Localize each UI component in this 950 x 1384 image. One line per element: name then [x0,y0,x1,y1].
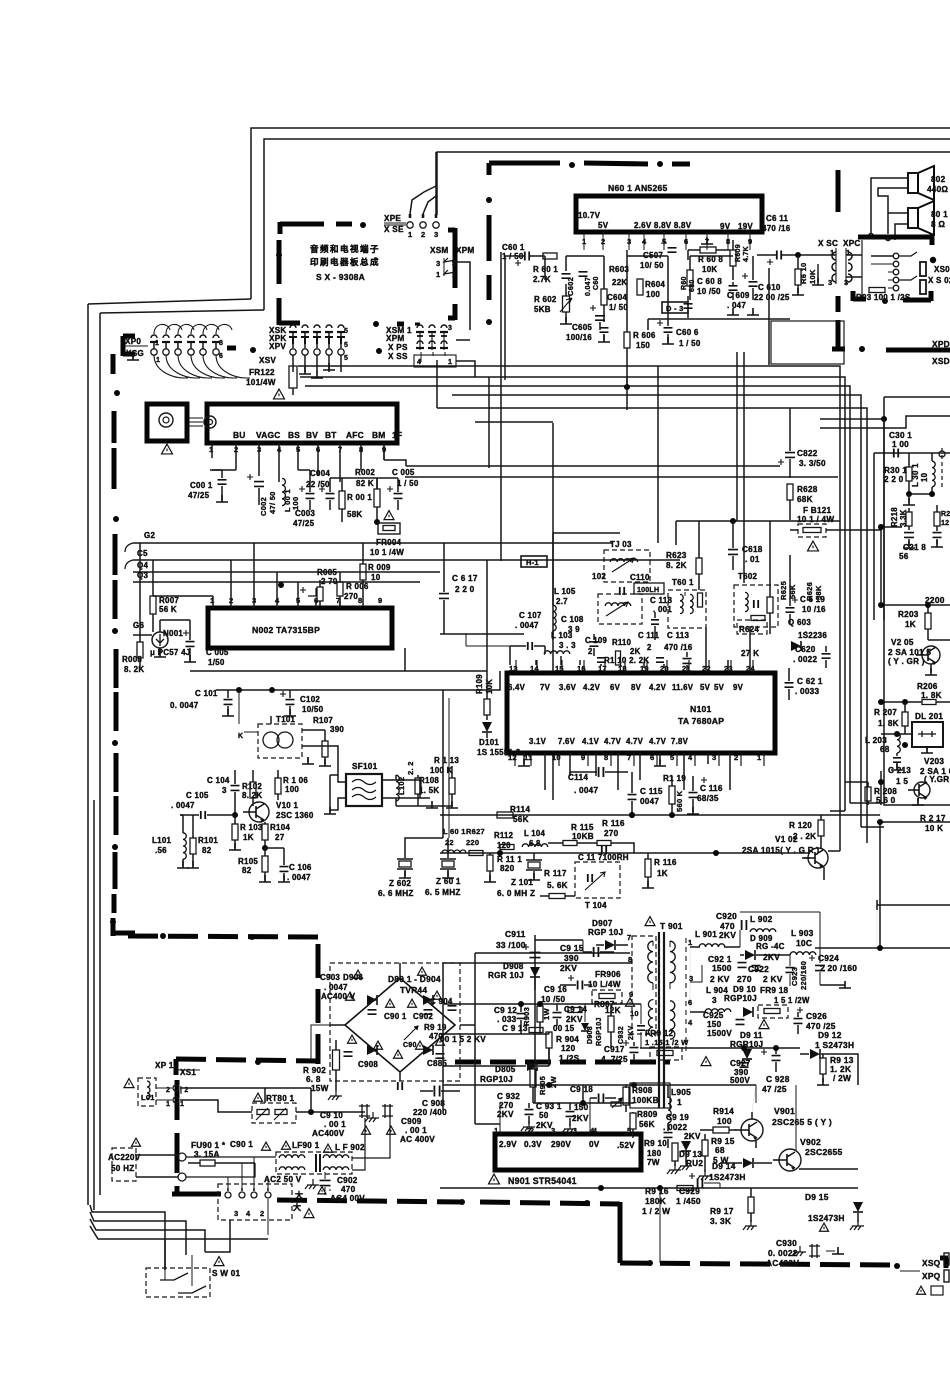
svg-text:14: 14 [530,664,539,673]
svg-text:2K: 2K [630,647,641,656]
svg-text:50: 50 [539,1111,549,1120]
capacitor C913 [502,1024,543,1033]
wire mid rail 815 [440,812,880,818]
svg-text:10/50: 10/50 [302,705,324,714]
svg-text:R109: R109 [475,674,484,694]
resistor FR918 [758,986,810,1018]
svg-text:H-1: H-1 [526,558,539,567]
svg-text:T602: T602 [738,572,758,581]
svg-text:10 /16: 10 /16 [802,605,826,614]
op-amp N101 TA7680AP box [507,673,775,753]
bus G2 line [125,531,612,552]
resistor R916 [642,1186,693,1217]
capacitor C607 [640,240,677,270]
wire sec rail2 [640,965,800,1051]
svg-text:4.1V: 4.1V [582,737,600,746]
capacitor C105 [171,791,235,819]
svg-text:Q 603: Q 603 [788,618,811,627]
svg-text:XP0: XP0 [125,337,141,346]
resistor R915 [702,1134,735,1165]
svg-text:C 93 1: C 93 1 [536,1102,562,1111]
svg-text:C60 6: C60 6 [676,328,699,337]
resistor R625 [767,521,795,634]
svg-text:8 Ω: 8 Ω [931,220,945,229]
capacitor C104 [207,770,240,818]
svg-text:C 609: C 609 [727,291,750,300]
resistor R03 [856,288,911,303]
wire tuner pin stubs [212,443,384,482]
wire v901 links [697,1085,858,1180]
svg-text:C90: C90 [403,1042,417,1049]
svg-text:68: 68 [880,745,890,754]
transistor V203 [908,757,950,805]
svg-text:2.9V: 2.9V [499,1140,517,1149]
svg-text:C925: C925 [703,1011,724,1020]
svg-text:10C: 10C [796,938,812,948]
svg-text:SF101: SF101 [352,762,378,771]
transistor V902 [773,1137,843,1171]
svg-text:C 104: C 104 [207,776,230,785]
svg-text:56K: 56K [639,1120,655,1129]
svg-text:C90 1: C90 1 [384,1012,407,1021]
ground XSK pins [299,363,335,378]
inductor L105 [553,533,576,640]
svg-text:22 00 /25: 22 00 /25 [754,293,790,302]
board audio dashed border top [489,161,690,175]
svg-text:10KB: 10KB [572,832,594,841]
svg-text:TJ 03: TJ 03 [610,540,632,549]
svg-text:C 109: C 109 [585,636,607,645]
svg-text:1: 1 [408,230,412,239]
svg-text:N001: N001 [163,629,183,638]
ground T101 [302,757,314,764]
diode D908 [488,962,540,990]
capacitor C002 [247,474,277,516]
svg-text:C9 15: C9 15 [560,943,584,953]
svg-text:10: 10 [630,1009,639,1018]
capacitor C605 [566,323,610,342]
label 大 marks [293,1190,303,1212]
svg-text:6. 8: 6. 8 [306,1075,321,1084]
svg-text:1: 1 [210,596,214,605]
resistor R005 [300,568,338,606]
svg-text:6.4V: 6.4V [508,683,526,692]
svg-text:R 00 1: R 00 1 [347,493,372,502]
svg-text:C90 1: C90 1 [230,1140,253,1149]
capacitor C115 [628,772,663,818]
wire outer board outline top [251,128,950,310]
capacitor C003 [293,470,315,528]
capacitor C611 [757,214,830,265]
svg-text:R30 1: R30 1 [884,466,907,475]
svg-text:XSM: XSM [430,246,449,255]
resistor R603 [601,256,629,322]
svg-text:4.7V: 4.7V [604,737,622,746]
svg-text:5: 5 [344,328,348,335]
svg-text:N901 STR54041: N901 STR54041 [508,1176,577,1186]
capacitor C915 [560,940,614,973]
svg-text:102: 102 [592,572,606,581]
svg-text:L101: L101 [152,836,172,845]
svg-text:AC2 50 V: AC2 50 V [264,1175,302,1184]
svg-text:XPM: XPM [386,334,405,343]
svg-text:R6 10: R6 10 [799,262,808,284]
svg-text:4.2V: 4.2V [649,683,667,692]
svg-text:C9 10: C9 10 [320,1111,343,1120]
resistor FB121 [790,506,881,537]
svg-text:R809: R809 [637,1110,658,1119]
resistor R626 [805,582,823,632]
plug AC220V [108,1138,186,1181]
svg-text:2KV: 2KV [560,963,577,973]
resistor R627 [466,838,483,856]
svg-text:180K: 180K [645,1196,666,1206]
svg-text:15W: 15W [311,1084,329,1093]
board audio dashed border right [832,170,950,352]
svg-text:大: 大 [293,1202,301,1212]
label tuner pin numbers [209,445,386,454]
resistor R206 [878,682,950,705]
svg-text:220/160: 220/160 [799,961,808,990]
speaker 802 [908,166,948,200]
connector XP0 pins [150,335,223,364]
svg-text:80 1: 80 1 [931,210,948,219]
svg-text:R 606: R 606 [633,331,656,340]
transformer T602 [734,572,778,627]
rectifier D801-D904 box [330,963,460,1081]
svg-text:VAGC: VAGC [256,430,281,440]
svg-text:9: 9 [581,753,585,762]
svg-text:D9 15: D9 15 [805,1192,829,1202]
svg-text:. 0022: . 0022 [663,1123,687,1132]
svg-text:C926: C926 [806,1011,827,1021]
diode D914 [709,1158,772,1182]
svg-text:C9 14: C9 14 [564,1005,587,1014]
resistor R117 [540,869,575,899]
svg-text:10: 10 [371,573,381,582]
transformer T901 primary [632,936,656,1036]
svg-text:. 00 1: . 00 1 [405,1126,427,1135]
svg-text:10K: 10K [702,265,717,274]
svg-text:3. 3K: 3. 3K [710,1216,731,1226]
transistor V102 [742,835,828,868]
board power dashed border xs1 [172,1059,318,1195]
svg-text:10/ 50: 10/ 50 [640,261,664,270]
svg-text:101/4W: 101/4W [246,378,276,387]
svg-text:X SE: X SE [384,225,404,234]
wire audio bottom outline [436,360,438,395]
svg-text:270: 270 [604,829,619,838]
connector 342 box [218,1184,292,1220]
svg-text:/ 2W: / 2W [833,1073,851,1083]
wire bottom-left steps [90,1205,268,1270]
node D-3 [662,302,688,313]
resistor R908 [611,1083,670,1112]
wire bottom misc [876,905,878,948]
svg-text:180: 180 [647,1149,662,1158]
ground L102 [396,801,452,808]
svg-text:FU90 1 *: FU90 1 * [191,1141,226,1150]
transformer TJ03b [598,594,642,624]
svg-text:3: 3 [448,325,452,332]
svg-text:3: 3 [222,786,227,795]
svg-text:100: 100 [291,497,300,510]
wire sec rails [740,912,950,988]
svg-text:. 0047: . 0047 [324,983,348,992]
svg-text:( Y . GR ): ( Y . GR ) [888,657,925,666]
capacitor C111 [638,631,664,662]
warning triangle sec [759,1020,769,1029]
board middle dashed border left [110,354,135,936]
svg-text:4: 4 [246,1209,251,1218]
capacitor C908b [344,1052,379,1069]
svg-text:. 0047: . 0047 [515,621,539,630]
svg-text:58K: 58K [347,510,362,519]
svg-text:10 /50: 10 /50 [697,287,721,296]
tuner IC box [189,404,397,443]
svg-text:0047: 0047 [640,797,659,806]
svg-text:RG -4C: RG -4C [756,942,785,951]
svg-text:TA 7680AP: TA 7680AP [678,716,724,726]
svg-text:RGP10J: RGP10J [480,1075,513,1084]
svg-text:DL 201: DL 201 [915,712,943,721]
transformer T901 label [645,917,683,931]
svg-text:220 /400: 220 /400 [413,1108,447,1117]
inductor L904 [690,986,731,1012]
diode D911 [730,1031,763,1059]
svg-text:C60 1: C60 1 [502,243,525,252]
capacitor C619 [786,555,827,625]
board power dashed border top [128,933,320,1064]
wire tuner net links [212,443,838,489]
svg-text:56K: 56K [788,584,797,599]
svg-text:N101: N101 [690,704,712,714]
svg-text:R 1 13: R 1 13 [434,756,459,765]
switch SW01 [146,1255,241,1297]
wire bridge to board [311,1025,330,1060]
label board title chinese [310,244,380,282]
svg-text:G2: G2 [144,531,155,540]
svg-text:L 903: L 903 [791,928,814,938]
capacitor C902 [305,1172,365,1203]
board SX-9308A dashed outline [276,222,455,325]
svg-text:1 5 1 /2W: 1 5 1 /2W [774,996,810,1005]
capacitor C113 [664,631,693,670]
svg-text:R624: R624 [739,625,759,634]
svg-text:C 115: C 115 [640,787,663,796]
connector XSM/XPM/XPS/XSS labels [386,326,412,361]
svg-text:R002: R002 [355,468,375,477]
wire XP0 curved leads [154,324,250,378]
svg-text:C60: C60 [593,276,600,290]
capacitor C923 [786,955,809,990]
svg-text:D9 12: D9 12 [818,1030,842,1040]
svg-text:R914: R914 [713,1106,734,1116]
connector XSK pin matrix [289,325,348,372]
capacitor C005b [387,468,419,510]
wire xp1 wires [180,1088,265,1112]
svg-text:2KV: 2KV [684,1132,701,1141]
resistor FR912 [645,1029,689,1060]
label N101 bottom pins [508,753,761,762]
resistor R917 [710,1188,757,1230]
svg-text:C114: C114 [568,773,588,782]
svg-text:5. 6K: 5. 6K [547,881,568,890]
svg-text:7: 7 [627,753,631,762]
capacitor C932r [618,1004,645,1048]
svg-text:47/ 50: 47/ 50 [268,491,277,514]
svg-text:G6: G6 [133,621,144,630]
svg-text:C102: C102 [300,695,320,704]
svg-text:2SA 1015( Y . G R ): 2SA 1015( Y . G R ) [742,846,819,855]
svg-text:4.7V: 4.7V [626,737,644,746]
label C213 [888,766,911,786]
inductor L001 [282,478,300,512]
svg-text:5V: 5V [700,683,711,692]
capacitor C901lbl [230,1140,271,1150]
svg-text:500V: 500V [730,1076,750,1085]
capacitor C617 [439,543,478,634]
resistor R107 [302,716,344,766]
svg-text:C911: C911 [505,929,526,939]
wire n901 gnd rail [440,1185,858,1263]
svg-text:X PS: X PS [388,343,408,352]
svg-text:1 /2S: 1 /2S [559,1054,580,1063]
resistor R807 [568,998,635,1012]
resistor R914 [700,1106,736,1133]
svg-text:68/35: 68/35 [697,794,719,803]
wire XPE leads [410,152,436,214]
svg-text:C 101: C 101 [195,689,218,698]
capacitor C606 [657,256,701,348]
svg-text:C 105: C 105 [186,791,209,800]
label XPD/XSD [932,339,950,366]
op-amp N002 TA7315BP box [208,608,392,648]
svg-text:8: 8 [604,753,608,762]
svg-text:XPC: XPC [843,239,861,248]
svg-text:4. 7/25: 4. 7/25 [601,1055,628,1064]
svg-text:. 001: . 001 [653,605,672,614]
wire fb121 link [878,524,902,530]
svg-text:R 602: R 602 [534,295,557,304]
svg-text:1: 1 [494,1126,498,1135]
svg-text:BV: BV [306,430,318,440]
resistor R113 [430,756,459,808]
svg-text:XS1: XS1 [180,1068,196,1077]
wire N002 bottom rails [190,648,500,693]
svg-text:C908: C908 [358,1060,378,1069]
capacitor C908 [413,1086,460,1118]
svg-text:RGP10J: RGP10J [596,1017,603,1046]
svg-text:6: 6 [219,353,223,360]
svg-text:S X - 9308A: S X - 9308A [316,272,365,282]
connector XS02 jack [920,280,926,294]
svg-text:印刷电器板总成: 印刷电器板总成 [310,257,380,267]
svg-text:7V: 7V [540,683,551,692]
svg-text:22 /50: 22 /50 [306,480,330,489]
svg-text:4.2V: 4.2V [583,683,601,692]
connector XSM/XPM right [430,246,475,279]
inductor L102 [396,761,415,806]
svg-text:D9 10: D9 10 [733,985,756,994]
wire audio board inner outline [437,152,950,215]
svg-text:C930: C930 [776,1238,797,1248]
svg-text:3: 3 [434,230,438,239]
svg-text:2KV: 2KV [763,952,780,962]
svg-text:150: 150 [636,341,650,350]
capacitor C919 [663,1113,701,1148]
svg-text:12K: 12K [605,1006,621,1015]
svg-text:大: 大 [295,1190,303,1200]
inductor L104 [522,829,548,848]
svg-text:1F: 1F [392,430,402,440]
wire crystal links [405,690,449,852]
svg-text:. 047: . 047 [727,301,746,310]
resistor R114 [497,805,530,824]
resistor R111 [484,853,522,882]
resistor R108 [415,775,439,806]
capacitor C101 [170,689,234,716]
resistor R606 [624,250,656,410]
resistor R116 [642,853,677,888]
warning triangle conn [304,1209,314,1218]
resistor R105 [238,848,271,882]
svg-text:2KV: 2KV [719,930,736,940]
board power dashed isolation [455,1060,670,1065]
svg-text:1. 5K: 1. 5K [419,786,439,795]
svg-text:R9 10: R9 10 [644,1139,667,1148]
capacitor C603 [579,272,601,296]
svg-text:XSQ: XSQ [922,1258,941,1268]
svg-text:C 116: C 116 [700,784,723,793]
wire bottom link lines [489,252,501,561]
speaker 801 [908,201,948,235]
warning triangle C902 [318,1187,326,1194]
capacitor C910 sym [359,1104,379,1134]
capacitor C218 [899,533,926,561]
label N101 top voltages [508,683,744,692]
inductor L01 [138,1078,156,1106]
svg-text:LF90 1: LF90 1 [292,1141,320,1150]
svg-text:C 118: C 118 [650,596,672,605]
svg-text:R007: R007 [159,596,179,605]
svg-text:8. 2K: 8. 2K [124,665,144,674]
svg-text:4.7V: 4.7V [649,737,667,746]
transformer T101 [238,690,302,758]
svg-text:1S2236: 1S2236 [798,631,827,640]
label L601 top [443,827,485,836]
svg-text:1: 1 [155,340,159,347]
svg-text:1: 1 [156,357,160,364]
svg-text:R 1 06: R 1 06 [283,776,308,785]
svg-text:C 6 17: C 6 17 [452,574,478,583]
svg-text:1. 8K: 1. 8K [878,719,899,728]
inductor L901 [690,930,740,947]
svg-text:R 103: R 103 [240,823,263,832]
warning triangle FR122 [274,389,285,399]
svg-text:D101: D101 [479,738,499,747]
svg-text:58K: 58K [814,585,823,600]
capacitor C910 [312,1111,346,1138]
svg-text:D908: D908 [587,1026,594,1044]
svg-text:AFC: AFC [346,430,364,440]
svg-text:1: 1 [677,1097,682,1107]
svg-text:22: 22 [445,838,454,847]
svg-text:5: 5 [670,753,674,762]
capacitor C601 [502,243,545,266]
label N901 [489,1174,577,1186]
inductor L101 [152,815,189,868]
